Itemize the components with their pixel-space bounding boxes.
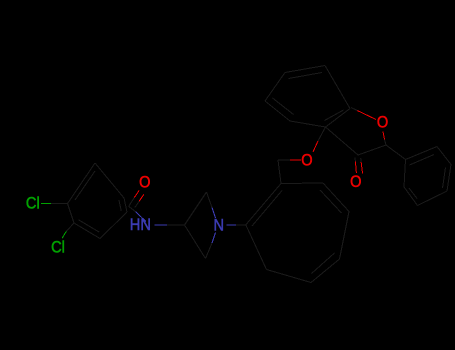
- wire R6-R1: [290, 121, 326, 127]
- wire C4'-T: [185, 192, 207, 225]
- benzyl CH2: K1-P: [278, 160, 281, 184]
- svg-text:O: O: [377, 114, 388, 132]
- wire T-A3: [95, 163, 124, 198]
- wire Ph1-Ph2: [406, 147, 438, 160]
- inner double B-A6: [79, 220, 100, 232]
- P-O ether bond: [278, 159, 290, 161]
- R5-O1: [351, 108, 358, 111]
- left benzene ring (dichlorophenyl): [68, 163, 128, 239]
- wire B2-N2: [206, 243, 213, 259]
- pentagon (furanone): O1-C2: [383, 132, 385, 140]
- wire K6-K5: [311, 259, 340, 283]
- wire R2-R3: [265, 73, 285, 102]
- inner double Ph3-Ph4: [443, 168, 446, 189]
- O ether to benzo ring R6: [313, 141, 318, 152]
- wire T-N2: [207, 192, 213, 208]
- inner double Ph1-Ph2: [410, 155, 435, 166]
- piperidine rhombus: [185, 192, 216, 259]
- wire R1-R2: [265, 101, 290, 121]
- middle ring (7-path as drawn): [246, 183, 349, 283]
- wire Ph2-Ph3: [437, 147, 451, 165]
- Cl2 bond dark half: [66, 223, 74, 231]
- C=O double bond (amide): [129, 197, 135, 206]
- inner double R5-R6: [325, 110, 344, 121]
- inner double Ktr-KR: [320, 190, 342, 213]
- inner double A1-T: [75, 171, 95, 200]
- wire A3-A4: [124, 198, 127, 212]
- wire R4-R5: [325, 66, 350, 109]
- wire K1-Ktr: [281, 182, 323, 185]
- wire Ktr-KR: [323, 183, 349, 212]
- wire V1m-K1: [246, 184, 281, 225]
- wire R5-R6: [326, 109, 351, 128]
- svg-text:N: N: [214, 217, 225, 235]
- inner double Ph5-Ph6: [409, 188, 417, 199]
- Cl1 bond green half: [41, 203, 51, 205]
- svg-text:Cl: Cl: [51, 239, 65, 257]
- ketone C3=O double bond: [354, 158, 356, 162]
- wire Ph5-Ph6: [404, 187, 418, 206]
- svg-text:O: O: [301, 152, 312, 170]
- wire KR-K6: [340, 212, 350, 260]
- Cl2 bond green half: [62, 231, 66, 238]
- N-C4' bond: [155, 224, 168, 226]
- inner double K6-K5: [312, 253, 335, 274]
- C2-C3: [358, 145, 386, 155]
- right phenyl: [404, 147, 451, 206]
- svg-text:Cl: Cl: [26, 195, 40, 213]
- Cl1 bond dark half: [51, 203, 68, 205]
- wire A1-T: [68, 163, 96, 204]
- wire R3-R4: [285, 66, 325, 73]
- inner double V1m-K1: [252, 191, 282, 227]
- wire A4-B: [100, 212, 127, 239]
- wire Ph6-Ph1: [404, 160, 406, 188]
- wire K4-V1m: [246, 225, 267, 270]
- benzo ring of benzofuranone: [265, 66, 350, 128]
- inner double A3-A4: [119, 200, 121, 211]
- wire Ph3-Ph4: [447, 165, 451, 192]
- svg-text:O: O: [350, 173, 361, 191]
- inner double R3-R4: [289, 73, 323, 79]
- C3-R6: [326, 127, 359, 155]
- svg-text:HN: HN: [130, 216, 151, 234]
- svg-text:O: O: [139, 174, 150, 192]
- C-N bond (amide): [129, 206, 136, 212]
- wire K5-K4: [267, 270, 312, 283]
- wire Ph4-Ph5: [418, 191, 448, 206]
- wire B-A6: [74, 223, 100, 239]
- C2-Ph1 bond: [386, 145, 406, 160]
- wire A6-A1: [68, 204, 75, 224]
- wire C4'-B2: [185, 225, 206, 259]
- N2-V1m bond: [227, 224, 237, 226]
- inner double R1-R2: [273, 98, 294, 115]
